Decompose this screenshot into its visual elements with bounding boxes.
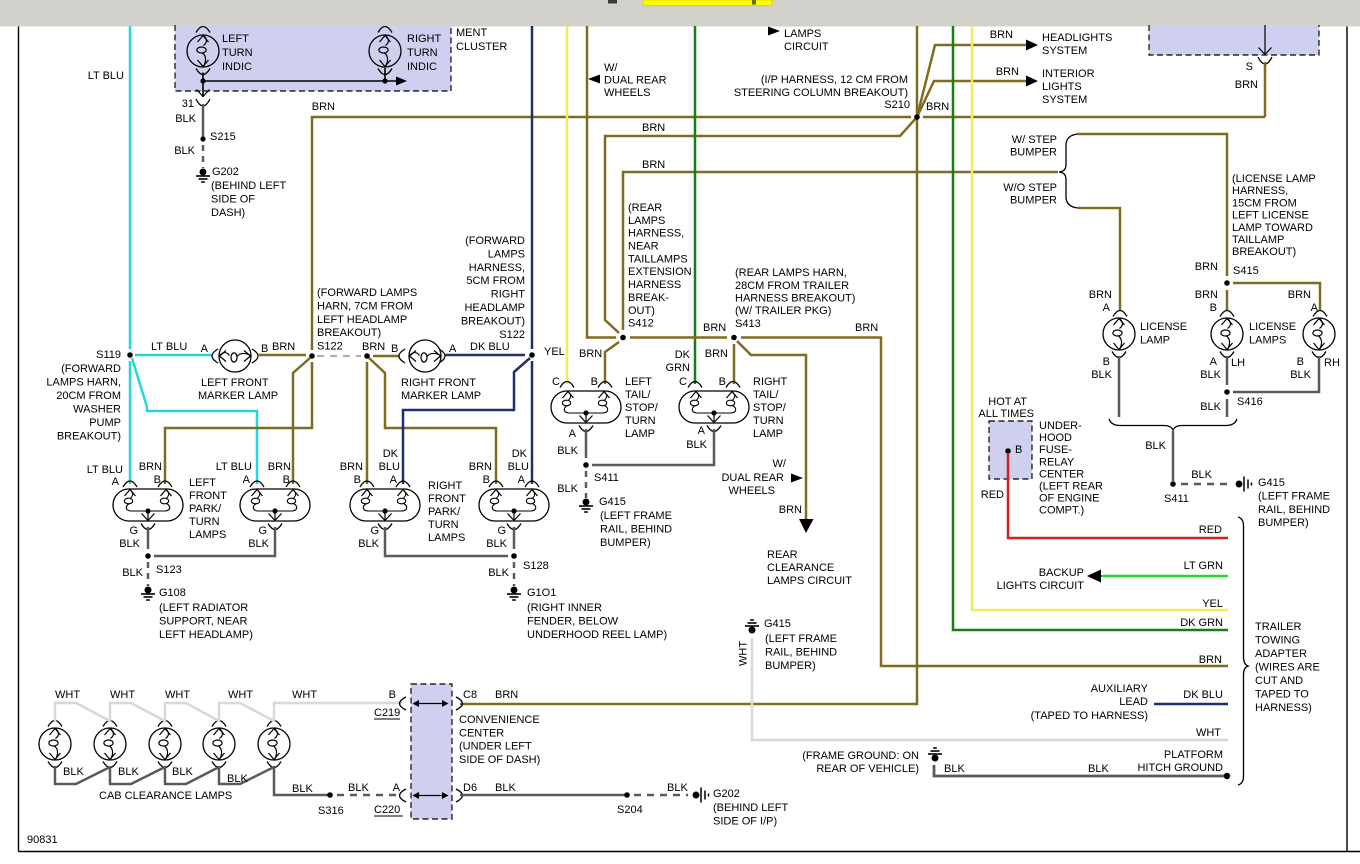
lamp LEFT TURN INDIC bbox=[187, 35, 219, 67]
svg-text:BUMPER): BUMPER) bbox=[600, 537, 651, 549]
svg-text:UNDER-: UNDER- bbox=[1039, 420, 1082, 432]
svg-text:TURN: TURN bbox=[222, 47, 253, 59]
svg-text:(RIGHT INNER: (RIGHT INNER bbox=[527, 602, 602, 614]
svg-text:W/O STEP: W/O STEP bbox=[1003, 182, 1057, 194]
svg-text:BLK: BLK bbox=[1290, 369, 1311, 381]
svg-text:(LEFT RADIATOR: (LEFT RADIATOR bbox=[159, 602, 248, 614]
svg-text:CUT AND: CUT AND bbox=[1255, 675, 1303, 687]
svg-text:BLK: BLK bbox=[175, 113, 196, 125]
svg-text:HARNESS): HARNESS) bbox=[1255, 702, 1312, 714]
wire BRN trunk from top to corner into S412 bbox=[587, 26, 616, 338]
svg-text:DUAL REAR: DUAL REAR bbox=[604, 75, 667, 87]
svg-text:HOT AT: HOT AT bbox=[988, 396, 1027, 408]
svg-text:TURN: TURN bbox=[428, 519, 459, 531]
svg-text:(FRAME GROUND: ON: (FRAME GROUND: ON bbox=[802, 750, 919, 762]
svg-text:BLK: BLK bbox=[227, 773, 248, 785]
svg-text:(REAR LAMPS HARN,: (REAR LAMPS HARN, bbox=[735, 267, 847, 279]
svg-text:BRN: BRN bbox=[926, 101, 949, 113]
wire exits cluster: pin 31 bbox=[202, 81, 204, 97]
svg-text:YEL: YEL bbox=[544, 346, 565, 358]
svg-text:(LEFT REAR: (LEFT REAR bbox=[1039, 481, 1103, 493]
wire BLK park lamp3 ground to S128 bbox=[378, 524, 392, 530]
svg-text:S316: S316 bbox=[318, 805, 344, 817]
svg-text:OF ENGINE: OF ENGINE bbox=[1039, 493, 1100, 505]
svg-text:WHEELS: WHEELS bbox=[729, 485, 775, 497]
splice S210 bbox=[914, 114, 920, 120]
wire BLK dashed S128 to G1O1 bbox=[513, 562, 516, 586]
svg-text:DK: DK bbox=[675, 349, 691, 361]
svg-text:HEADLAMP: HEADLAMP bbox=[464, 302, 525, 314]
svg-text:DK GRN: DK GRN bbox=[1180, 617, 1223, 629]
splice S413 bbox=[731, 335, 737, 341]
splice S316 bbox=[327, 792, 333, 798]
svg-text:LEFT FRONT: LEFT FRONT bbox=[201, 377, 269, 389]
svg-text:SIDE OF: SIDE OF bbox=[211, 194, 255, 206]
svg-text:S122: S122 bbox=[499, 329, 525, 341]
splice S204 bbox=[624, 792, 630, 798]
svg-text:BLK: BLK bbox=[172, 766, 193, 778]
svg-text:HARNESS,: HARNESS, bbox=[628, 228, 684, 240]
wire YEL trunk (right) from top to trailer YEL row bbox=[972, 26, 1228, 610]
svg-text:B: B bbox=[391, 343, 398, 355]
svg-text:TURN: TURN bbox=[189, 516, 220, 528]
svg-text:BRN: BRN bbox=[495, 689, 518, 701]
svg-text:(UNDER LEFT: (UNDER LEFT bbox=[459, 741, 532, 753]
lamp CAB CLEARANCE 2 bbox=[103, 721, 117, 727]
svg-text:15CM FROM: 15CM FROM bbox=[1232, 197, 1297, 209]
svg-text:A: A bbox=[569, 428, 577, 440]
svg-text:(FORWARD: (FORWARD bbox=[61, 363, 121, 375]
svg-text:LEAD: LEAD bbox=[1119, 696, 1148, 708]
svg-text:CONVENIENCE: CONVENIENCE bbox=[459, 714, 540, 726]
svg-text:BLK: BLK bbox=[292, 783, 313, 795]
svg-text:A: A bbox=[243, 474, 251, 486]
svg-text:S204: S204 bbox=[617, 804, 643, 816]
svg-text:A: A bbox=[1311, 302, 1319, 314]
svg-text:S411: S411 bbox=[1164, 493, 1189, 505]
diagram frame right border bbox=[1346, 27, 1348, 852]
splice S411 (right) bbox=[1170, 481, 1176, 487]
wire DK BLU trunk down to park lamp4 pin A bbox=[531, 361, 534, 484]
terminal dot platform hitch ground bbox=[1224, 773, 1230, 779]
svg-text:BLK: BLK bbox=[358, 538, 379, 550]
svg-text:PLATFORM: PLATFORM bbox=[1164, 749, 1223, 761]
svg-text:BRN: BRN bbox=[779, 504, 802, 516]
arrow W/ DUAL REAR WHEELS (top) bbox=[588, 75, 600, 84]
svg-text:S412: S412 bbox=[628, 318, 654, 330]
svg-text:G415: G415 bbox=[764, 618, 791, 630]
svg-text:LAMPS: LAMPS bbox=[628, 215, 665, 227]
svg-text:WHT: WHT bbox=[292, 689, 317, 701]
svg-text:G202: G202 bbox=[212, 166, 239, 178]
svg-text:REAR: REAR bbox=[767, 549, 798, 561]
svg-text:TAILLAMPS: TAILLAMPS bbox=[628, 253, 688, 265]
lamp LICENSE LAMPS RH bbox=[1313, 311, 1327, 317]
lamp RIGHT TURN INDIC bbox=[369, 35, 401, 67]
svg-text:SUPPORT, NEAR: SUPPORT, NEAR bbox=[159, 615, 247, 627]
svg-text:90831: 90831 bbox=[27, 834, 58, 846]
lamp CAB CLEARANCE 5 bbox=[267, 721, 281, 727]
svg-text:A: A bbox=[698, 425, 706, 437]
svg-text:BRN: BRN bbox=[855, 322, 878, 334]
svg-text:BRN: BRN bbox=[1288, 289, 1311, 301]
svg-text:S128: S128 bbox=[523, 560, 549, 572]
UNDERHOOD FUSE-RELAY CENTER dashed box bbox=[989, 421, 1032, 479]
wire BLK dashed S411 to G415 bbox=[585, 471, 588, 498]
svg-text:LEFT HEADLAMP): LEFT HEADLAMP) bbox=[159, 629, 253, 641]
svg-text:S123: S123 bbox=[156, 564, 182, 576]
wire dashed S122 continuation bbox=[317, 355, 361, 357]
svg-text:BLK: BLK bbox=[122, 567, 143, 579]
svg-text:HARNESS,: HARNESS, bbox=[469, 262, 525, 274]
svg-text:S119: S119 bbox=[96, 349, 121, 361]
svg-text:BRN: BRN bbox=[312, 101, 335, 113]
svg-text:CAB CLEARANCE LAMPS: CAB CLEARANCE LAMPS bbox=[99, 790, 232, 802]
ground G202 (behind left side of I/P) bbox=[693, 788, 708, 803]
svg-text:DK: DK bbox=[512, 448, 528, 460]
svg-text:B: B bbox=[154, 474, 161, 486]
svg-text:LEFT: LEFT bbox=[189, 477, 216, 489]
svg-text:S122: S122 bbox=[317, 341, 343, 353]
wire RED fuse center to trailer RED row bbox=[1008, 453, 1228, 538]
splice S128 bbox=[511, 553, 517, 559]
wire DK BLU trunk from top to junction at right marker lamp bbox=[531, 26, 534, 349]
svg-text:(FORWARD LAMPS: (FORWARD LAMPS bbox=[317, 287, 417, 299]
wire LT BLU trunk from top to S119 bbox=[129, 26, 132, 349]
wire BRN S122 down-left to park lamp1 pin B bbox=[165, 362, 312, 484]
lamp LICENSE LAMPS LH bbox=[1220, 311, 1234, 317]
svg-text:BLK: BLK bbox=[119, 538, 140, 550]
svg-text:UNDERHOOD REEL LAMP): UNDERHOOD REEL LAMP) bbox=[527, 629, 667, 641]
wire YEL trunk from top to left tail lamp pin C bbox=[566, 26, 569, 384]
svg-text:B: B bbox=[389, 689, 396, 701]
svg-text:BRN: BRN bbox=[1195, 289, 1218, 301]
wire BLK park lamp4 ground to S128 bbox=[507, 524, 521, 530]
svg-text:WHT: WHT bbox=[1196, 727, 1221, 739]
svg-text:G: G bbox=[258, 525, 267, 537]
svg-text:DK BLU: DK BLU bbox=[470, 341, 510, 353]
wire BRN S413 to trailer BRN row bbox=[741, 338, 1228, 667]
lamp LEFT FRONT PARK/TURN LAMPS (pair) bbox=[123, 481, 137, 487]
svg-text:(BEHIND LEFT: (BEHIND LEFT bbox=[211, 180, 286, 192]
svg-text:BLK: BLK bbox=[174, 145, 195, 157]
wire DK GRN trunk from top to right tail lamp pin C bbox=[694, 26, 697, 384]
svg-text:G108: G108 bbox=[159, 587, 186, 599]
svg-text:B: B bbox=[354, 474, 361, 486]
wire BRN trunk through S210 down to C8 feed bbox=[460, 26, 917, 704]
wire LT BLU S119 diagonal branch to park lamp2 pin A bbox=[132, 358, 257, 484]
svg-text:LICENSE: LICENSE bbox=[1140, 321, 1187, 333]
lamp LEFT FRONT MARKER LAMP bbox=[212, 349, 218, 363]
connector C220 pin A bbox=[400, 789, 407, 802]
svg-text:BREAKOUT): BREAKOUT) bbox=[1232, 246, 1296, 258]
svg-text:C: C bbox=[552, 376, 560, 388]
wire BRN instrument cluster feed: corner at (312,117) to S210 and on to S box bbox=[312, 117, 911, 350]
svg-text:BLK: BLK bbox=[488, 567, 509, 579]
svg-text:WHEELS: WHEELS bbox=[604, 87, 650, 99]
svg-text:BREAKOUT): BREAKOUT) bbox=[461, 315, 525, 327]
splice S123 bbox=[145, 553, 151, 559]
wire BLK left tail lamp A to S411 bbox=[579, 426, 593, 432]
svg-text:MARKER LAMP: MARKER LAMP bbox=[401, 390, 481, 402]
svg-text:BRN: BRN bbox=[340, 461, 363, 473]
svg-text:BRN: BRN bbox=[139, 461, 162, 473]
svg-text:HARNESS,: HARNESS, bbox=[1232, 185, 1288, 197]
svg-text:SYSTEM: SYSTEM bbox=[1042, 94, 1087, 106]
svg-text:RH: RH bbox=[1324, 357, 1340, 369]
connector C219/C220 into convenience center bbox=[411, 684, 452, 819]
splice S411 (left) bbox=[583, 462, 589, 468]
svg-text:BLK: BLK bbox=[686, 439, 707, 451]
svg-text:LT BLU: LT BLU bbox=[87, 464, 123, 476]
wire BLK park lamp1 ground to S123 bbox=[141, 524, 155, 530]
svg-text:TAIL/: TAIL/ bbox=[625, 389, 651, 401]
junction dot left turn lamp on bus bbox=[200, 78, 205, 83]
svg-text:BLU: BLU bbox=[508, 461, 529, 473]
svg-text:TOWING: TOWING bbox=[1255, 635, 1300, 647]
svg-text:HITCH GROUND: HITCH GROUND bbox=[1137, 762, 1223, 774]
splice S122 bbox=[309, 353, 315, 359]
svg-text:TAIL/: TAIL/ bbox=[753, 389, 779, 401]
svg-text:20CM FROM: 20CM FROM bbox=[56, 390, 121, 402]
svg-text:BLK: BLK bbox=[1088, 763, 1109, 775]
svg-text:RED: RED bbox=[981, 489, 1004, 501]
svg-text:S411: S411 bbox=[594, 472, 619, 484]
svg-text:LEFT: LEFT bbox=[222, 33, 249, 45]
svg-text:RELAY: RELAY bbox=[1039, 456, 1075, 468]
svg-text:LEFT: LEFT bbox=[625, 376, 652, 388]
svg-text:B: B bbox=[261, 343, 268, 355]
svg-text:AUXILIARY: AUXILIARY bbox=[1091, 683, 1149, 695]
arrowhead to LAMPS CIRCUIT (cropped line) bbox=[768, 27, 780, 36]
svg-text:SIDE OF DASH): SIDE OF DASH) bbox=[459, 754, 540, 766]
svg-text:LH: LH bbox=[1231, 357, 1245, 369]
wire BRN S122b down to park lamp3 pin B bbox=[366, 362, 369, 484]
svg-text:SIDE OF I/P): SIDE OF I/P) bbox=[713, 815, 777, 827]
svg-text:FUSE-: FUSE- bbox=[1039, 444, 1072, 456]
svg-text:S416: S416 bbox=[1237, 396, 1263, 408]
svg-text:STEERING COLUMN BREAKOUT): STEERING COLUMN BREAKOUT) bbox=[734, 87, 908, 99]
wire BLK frame ground to platform hitch ground row bbox=[934, 765, 1228, 776]
svg-text:MARKER LAMP: MARKER LAMP bbox=[198, 390, 278, 402]
svg-text:(I/P HARNESS, 12 CM FROM: (I/P HARNESS, 12 CM FROM bbox=[761, 74, 908, 86]
svg-text:BLU: BLU bbox=[379, 461, 400, 473]
wire BRN S pin down to y=117 line bbox=[1264, 62, 1267, 117]
svg-text:BUMPER: BUMPER bbox=[1010, 195, 1057, 207]
lamp CAB CLEARANCE 3 bbox=[158, 721, 172, 727]
top toolbar strip (cropped) bbox=[0, 0, 1360, 27]
svg-text:LIGHTS CIRCUIT: LIGHTS CIRCUIT bbox=[997, 580, 1085, 592]
svg-text:LAMP: LAMP bbox=[1140, 335, 1170, 347]
ground G415 (left frame rail, behind bumper) bbox=[1236, 477, 1251, 492]
svg-text:RAIL, BEHIND: RAIL, BEHIND bbox=[765, 646, 837, 658]
wire BLK LH lamp to S416 bbox=[1220, 352, 1234, 358]
svg-text:SYSTEM: SYSTEM bbox=[1042, 45, 1087, 57]
splice S416 bbox=[1224, 389, 1230, 395]
svg-text:LAMPS HARN,: LAMPS HARN, bbox=[46, 377, 121, 389]
svg-text:(LEFT FRAME: (LEFT FRAME bbox=[600, 510, 672, 522]
splice S412 bbox=[620, 335, 626, 341]
lamp RIGHT TAIL/STOP/TURN LAMP bbox=[688, 382, 702, 388]
wire DK BLU right marker A to trunk junction bbox=[445, 354, 525, 357]
svg-text:BLK: BLK bbox=[557, 445, 578, 457]
svg-text:DUAL REAR: DUAL REAR bbox=[721, 472, 784, 484]
svg-text:BREAKOUT): BREAKOUT) bbox=[317, 327, 381, 339]
svg-text:BUMPER: BUMPER bbox=[1010, 147, 1057, 159]
lamp CAB CLEARANCE 1 bbox=[48, 721, 62, 727]
svg-text:BRN: BRN bbox=[362, 341, 385, 353]
svg-text:DASH): DASH) bbox=[211, 207, 245, 219]
svg-text:RAIL, BEHIND: RAIL, BEHIND bbox=[1258, 504, 1330, 516]
svg-text:LAMPS: LAMPS bbox=[1249, 335, 1286, 347]
svg-text:S413: S413 bbox=[735, 318, 761, 330]
svg-text:RIGHT: RIGHT bbox=[428, 480, 463, 492]
ground G415 (mid, frame rail) feeding WHT bbox=[745, 620, 759, 633]
svg-text:OUT): OUT) bbox=[628, 305, 655, 317]
svg-text:INTERIOR: INTERIOR bbox=[1042, 68, 1095, 80]
wire DK BLU diagonal branch to park lamp3 pin A bbox=[403, 358, 530, 484]
wire BRN S122b diagonal to park lamp4 pin B bbox=[369, 358, 496, 484]
svg-text:TURN: TURN bbox=[753, 415, 784, 427]
svg-text:BREAKOUT): BREAKOUT) bbox=[57, 431, 121, 443]
svg-text:C220: C220 bbox=[374, 804, 400, 816]
svg-text:BLK: BLK bbox=[118, 766, 139, 778]
svg-text:BLK: BLK bbox=[348, 782, 369, 794]
svg-text:LIGHTS: LIGHTS bbox=[1042, 81, 1082, 93]
wire cluster bus from left turn lamp to arrow bbox=[196, 69, 210, 75]
wire BLK pin31 to S215 bbox=[202, 104, 205, 139]
svg-text:BRN: BRN bbox=[1235, 79, 1258, 91]
svg-text:LAMPS: LAMPS bbox=[428, 532, 465, 544]
svg-text:G: G bbox=[370, 525, 379, 537]
junction dot DK BLU trunk bbox=[529, 352, 535, 358]
svg-text:B: B bbox=[1210, 302, 1217, 314]
diagram frame left border bbox=[18, 27, 20, 852]
connector box (cropped, top right) with S pin bbox=[1149, 25, 1319, 55]
svg-text:HARN, 7CM FROM: HARN, 7CM FROM bbox=[317, 300, 413, 312]
svg-text:WHT: WHT bbox=[55, 689, 80, 701]
svg-text:A: A bbox=[390, 474, 398, 486]
svg-text:DK BLU: DK BLU bbox=[1183, 689, 1223, 701]
wire BRN S210 to INTERIOR LIGHTS SYSTEM bbox=[917, 81, 1026, 117]
svg-text:A: A bbox=[393, 782, 401, 794]
svg-text:B: B bbox=[483, 474, 490, 486]
svg-text:BRN: BRN bbox=[272, 341, 295, 353]
svg-text:PARK/: PARK/ bbox=[428, 506, 461, 518]
svg-text:PARK/: PARK/ bbox=[189, 503, 222, 515]
svg-text:B: B bbox=[591, 376, 598, 388]
svg-text:TAPED TO: TAPED TO bbox=[1255, 689, 1309, 701]
svg-text:G: G bbox=[129, 525, 138, 537]
lamp LEFT TAIL/STOP/TURN LAMP bbox=[560, 382, 574, 388]
svg-text:BLK: BLK bbox=[248, 538, 269, 550]
svg-text:BLK: BLK bbox=[667, 782, 688, 794]
wire BRN S412 to S413 bbox=[630, 336, 727, 339]
svg-text:FRONT: FRONT bbox=[189, 490, 227, 502]
svg-text:CENTER: CENTER bbox=[1039, 468, 1084, 480]
svg-text:RIGHT FRONT: RIGHT FRONT bbox=[401, 377, 476, 389]
svg-text:BREAK-: BREAK- bbox=[628, 292, 669, 304]
svg-text:LT BLU: LT BLU bbox=[151, 341, 187, 353]
lamp RIGHT FRONT MARKER LAMP bbox=[399, 349, 405, 363]
svg-text:CIRCUIT: CIRCUIT bbox=[784, 41, 829, 53]
svg-text:BLK: BLK bbox=[1191, 469, 1212, 481]
svg-text:LT GRN: LT GRN bbox=[1184, 560, 1223, 572]
svg-text:(BEHIND LEFT: (BEHIND LEFT bbox=[713, 802, 788, 814]
svg-text:A: A bbox=[201, 343, 209, 355]
svg-text:MENT: MENT bbox=[456, 27, 487, 39]
svg-text:TURN: TURN bbox=[625, 415, 656, 427]
svg-text:BUMPER): BUMPER) bbox=[1258, 517, 1309, 529]
svg-text:STOP/: STOP/ bbox=[625, 402, 659, 414]
svg-text:BRN: BRN bbox=[1199, 654, 1222, 666]
svg-text:(LEFT FRAME: (LEFT FRAME bbox=[1258, 490, 1330, 502]
svg-text:5CM FROM: 5CM FROM bbox=[466, 275, 525, 287]
wire BLK right tail lamp A joins S411 bbox=[707, 426, 721, 432]
wire LT BLU S119 down to park lamp1 pin A bbox=[129, 361, 132, 484]
svg-text:BRN: BRN bbox=[705, 348, 728, 360]
svg-text:BUMPER): BUMPER) bbox=[765, 660, 816, 672]
svg-text:WHT: WHT bbox=[165, 689, 190, 701]
svg-text:BRN: BRN bbox=[469, 461, 492, 473]
svg-text:LICENSE: LICENSE bbox=[1249, 321, 1296, 333]
svg-text:(REAR: (REAR bbox=[628, 202, 662, 214]
svg-text:HARNESS: HARNESS bbox=[628, 279, 681, 291]
wire BLK dashed S204 to G202 bbox=[634, 794, 688, 797]
svg-text:PUMP: PUMP bbox=[89, 417, 121, 429]
ground G415 (left frame rail, behind bumper) bbox=[579, 499, 593, 512]
svg-text:WHT: WHT bbox=[228, 689, 253, 701]
svg-text:BRN: BRN bbox=[642, 159, 665, 171]
svg-text:G415: G415 bbox=[1258, 477, 1285, 489]
ground symbol frame ground bbox=[928, 748, 942, 761]
svg-text:28CM FROM TRAILER: 28CM FROM TRAILER bbox=[735, 280, 849, 292]
svg-text:ALL TIMES: ALL TIMES bbox=[978, 408, 1034, 420]
svg-text:TURN: TURN bbox=[407, 47, 438, 59]
svg-text:BLK: BLK bbox=[1145, 440, 1166, 452]
ground G202 (behind left side of dash) bbox=[196, 169, 210, 182]
wire BLK single license lamp B down to brace bbox=[1112, 352, 1126, 358]
svg-text:EXTENSION: EXTENSION bbox=[628, 266, 692, 278]
svg-text:TAILLAMP: TAILLAMP bbox=[1232, 234, 1284, 246]
svg-text:RAIL, BEHIND: RAIL, BEHIND bbox=[600, 524, 672, 536]
svg-text:CLEARANCE: CLEARANCE bbox=[767, 562, 834, 574]
splice S215 bbox=[200, 136, 205, 141]
pin B of fuse center bbox=[1005, 448, 1011, 454]
svg-text:WASHER: WASHER bbox=[73, 404, 121, 416]
svg-text:(LEFT FRAME: (LEFT FRAME bbox=[765, 633, 837, 645]
svg-text:A: A bbox=[1210, 356, 1218, 368]
svg-text:B: B bbox=[1297, 356, 1304, 368]
wire WHT cab lamp bus bbox=[55, 703, 110, 722]
splice S415 bbox=[1224, 280, 1230, 286]
svg-text:A: A bbox=[449, 343, 457, 355]
svg-text:COMPT.): COMPT.) bbox=[1039, 505, 1084, 517]
instrument cluster dashed box bbox=[175, 25, 451, 91]
svg-text:G1O1: G1O1 bbox=[527, 587, 556, 599]
wire DK BLU auxiliary lead bbox=[1154, 703, 1228, 706]
svg-text:RIGHT: RIGHT bbox=[753, 376, 788, 388]
svg-text:BRN: BRN bbox=[990, 29, 1013, 41]
svg-text:G: G bbox=[497, 525, 506, 537]
svg-text:LAMP: LAMP bbox=[753, 428, 783, 440]
wire BRN S415 to RH license lamp pin A bbox=[1233, 283, 1320, 311]
svg-text:WHT: WHT bbox=[738, 641, 750, 666]
wire BRN S412 to left tail lamp pin B bbox=[605, 342, 619, 384]
svg-text:A: A bbox=[518, 474, 526, 486]
svg-text:LAMPS CIRCUIT: LAMPS CIRCUIT bbox=[767, 575, 852, 587]
svg-text:BRN: BRN bbox=[579, 348, 602, 360]
